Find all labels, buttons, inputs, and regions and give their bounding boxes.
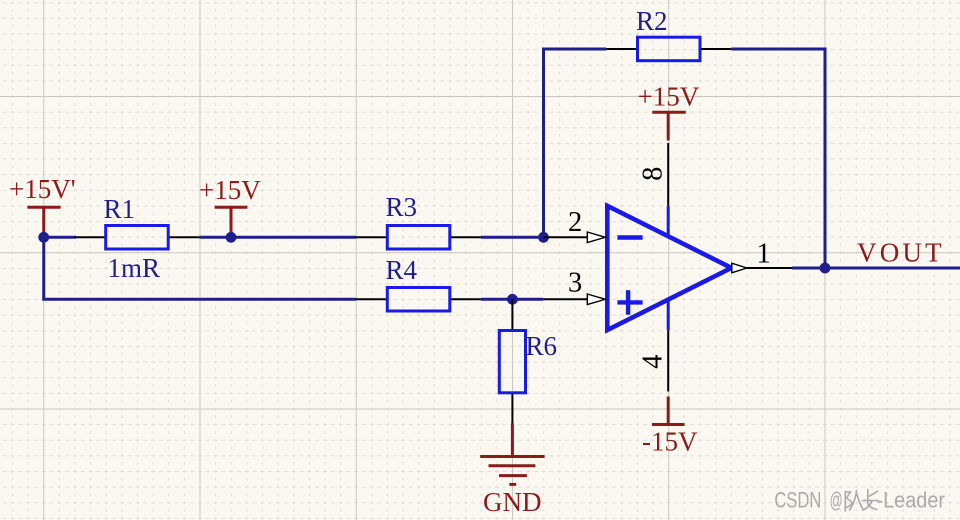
power symbol +15V (top) [638, 82, 700, 141]
pin 2 line [544, 236, 589, 238]
op-amp plus symbol [617, 290, 642, 315]
wire R2 left vertical + row left [544, 49, 607, 237]
junction dot node A (43.75,237.3) [38, 232, 49, 243]
pin 1 line [747, 267, 793, 269]
junction dot +15V node (231,237.3) [226, 232, 237, 243]
svg-text:3: 3 [568, 268, 582, 299]
resistor R3 pins [356, 236, 387, 238]
pin 2 arrow [587, 232, 605, 243]
op-amp minus symbol [617, 235, 642, 239]
pin 8 line black [667, 143, 669, 206]
op-amp U1 triangle [607, 206, 731, 330]
svg-text:R6: R6 [526, 331, 558, 361]
svg-text:R3: R3 [386, 192, 418, 222]
svg-text:R4: R4 [386, 255, 418, 285]
pin 3 line [543, 298, 588, 300]
svg-text:8: 8 [637, 167, 668, 181]
ground symbol GND [480, 423, 544, 517]
wire left vertical + row B left segment [44, 237, 356, 299]
wire row A mid segment [199, 236, 356, 239]
resistor R3 [387, 226, 450, 250]
svg-text:+15V': +15V' [9, 174, 76, 204]
glyph dui (队) [845, 491, 863, 512]
glyph zhang (长) [863, 490, 879, 511]
junction dot pin3 node (512.4,299.3) [507, 294, 518, 305]
svg-text:-Leader: -Leader [877, 488, 946, 513]
pin 4 line black [667, 330, 669, 391]
resistor R1 [106, 226, 169, 250]
svg-text:-15V: -15V [642, 427, 698, 457]
svg-text:1: 1 [757, 238, 771, 269]
junction dot pin2 node (543.5,237.3) [538, 232, 549, 243]
svg-text:CSDN: CSDN [774, 488, 821, 513]
resistor R6 pins [511, 299, 513, 330]
resistor R6 [499, 331, 525, 393]
resistor R4 [387, 288, 450, 312]
resistor R1 pins [75, 236, 106, 238]
wire output row [792, 267, 960, 270]
svg-text:2: 2 [568, 207, 582, 238]
wire row A right segment [481, 236, 544, 239]
wire row B right segment [481, 298, 543, 301]
pin 1 arrow [732, 263, 747, 273]
pin 8 blue stub [667, 206, 670, 237]
svg-text:R2: R2 [636, 6, 668, 36]
svg-text:R1: R1 [104, 194, 136, 224]
pin 3 arrow [587, 294, 605, 305]
watermark CSDN [774, 488, 945, 513]
svg-text:@: @ [830, 488, 843, 513]
svg-text:GND: GND [483, 487, 542, 517]
svg-text:+15V: +15V [638, 82, 700, 112]
svg-text:VOUT: VOUT [857, 238, 945, 268]
junction dot output node (825,268) [820, 263, 831, 274]
power symbol -15V [642, 397, 698, 457]
resistor R4 pins [356, 298, 387, 300]
wire R2 row right + right vertical [731, 49, 825, 268]
wire row A left segment [44, 236, 76, 239]
svg-text:4: 4 [637, 354, 668, 368]
svg-text:1mR: 1mR [108, 253, 161, 283]
resistor R2 [638, 37, 701, 61]
power symbol +15V' [9, 174, 76, 237]
resistor R2 pins [606, 48, 637, 50]
svg-text:+15V: +15V [199, 175, 261, 205]
pin 4 blue stub [667, 300, 670, 331]
power symbol +15V (left) [199, 175, 261, 238]
